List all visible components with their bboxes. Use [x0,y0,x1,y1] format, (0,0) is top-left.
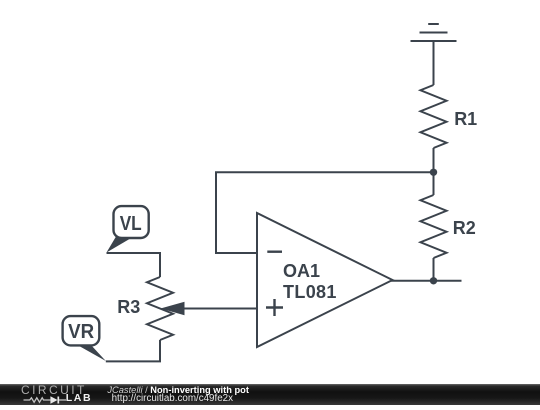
node B junction dot [430,277,437,284]
op-amp OA1 triangle [257,213,393,347]
wire R3 to VR [106,340,160,361]
output wire [391,280,462,282]
resistor R1 [421,85,447,148]
CircuitLab logo resistor-diode glyph [21,386,101,405]
wire plus input [184,308,257,310]
op-amp minus symbol [267,250,282,252]
resistor R2 [421,195,447,258]
potentiometer R3 body [147,277,173,340]
svg-text:VR: VR [68,321,95,343]
wire VL to R3 [107,253,161,277]
footer attribution line [107,385,249,395]
wire ground to R1 [433,41,435,85]
feedback wire [216,172,434,253]
potentiometer R3 wiper arrow [161,302,185,315]
ground (inverted, top) [411,24,457,41]
wire R1 to node A [433,148,435,172]
op-amp plus symbol [266,299,283,316]
flag VR box [63,316,100,345]
svg-text:VL: VL [120,213,142,235]
svg-text:R3: R3 [117,297,140,317]
svg-text:OA1: OA1 [283,261,320,281]
flag VL pointer wedge [107,237,132,253]
footer url [112,393,233,404]
CircuitLab logo LAB [66,394,92,403]
CircuitLab logo wordmark [21,386,87,395]
svg-text:R1: R1 [454,109,477,129]
wire node A to R2 [433,172,435,195]
flag VL box [114,206,149,238]
wire R2 to node B [433,258,435,281]
svg-text:R2: R2 [453,218,476,238]
footer bar [0,384,540,405]
node A junction dot [430,169,437,176]
svg-text:TL081: TL081 [283,282,337,302]
flag VR pointer wedge [77,345,106,362]
